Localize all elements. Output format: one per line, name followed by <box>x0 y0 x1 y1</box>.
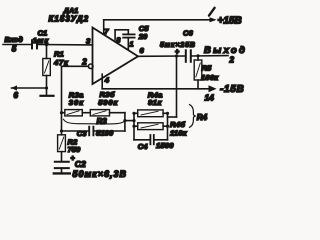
svg-text:20: 20 <box>138 32 148 41</box>
capacitor C5 20 (between pins 8 and 1) <box>115 24 149 50</box>
ground common bar under R1 <box>41 95 54 97</box>
svg-text:6: 6 <box>14 91 19 100</box>
resistor R3а 30к <box>62 91 85 116</box>
wire output pin 6 to C6 <box>138 55 185 57</box>
wire pin 7 to +15V rail <box>103 20 105 35</box>
inversion circle at pin 2 <box>88 64 93 69</box>
junction feedback node / R3 row <box>60 111 63 114</box>
svg-text:50мк×6,3В: 50мк×6,3В <box>73 169 128 179</box>
svg-text:2: 2 <box>81 58 87 67</box>
svg-text:Выход: Выход <box>204 45 247 56</box>
junction feedback node / C3 row <box>60 129 63 132</box>
wire R4 network right vertical <box>167 113 169 140</box>
svg-text:47к: 47к <box>53 58 69 67</box>
wire output node down to R4 network <box>168 56 177 117</box>
capacitor C4 1500 <box>134 135 174 151</box>
svg-text:8: 8 <box>116 35 120 44</box>
capacitor C2 50мк 6,3В polarized <box>55 156 127 180</box>
svg-text:R3: R3 <box>97 117 108 126</box>
svg-text:750: 750 <box>68 145 81 154</box>
junction R5 top <box>196 54 199 57</box>
svg-text:-15В: -15В <box>220 84 244 95</box>
resistor R2 750 <box>58 135 81 161</box>
junction R4 left middle <box>132 119 135 122</box>
junction R3 corner / tap to R4 <box>123 119 126 122</box>
svg-text:Вход: Вход <box>5 35 24 44</box>
svg-text:С6: С6 <box>183 29 193 38</box>
node Выход output terminal 2 <box>204 45 247 65</box>
wire C6 to output terminal <box>191 55 228 57</box>
svg-text:С4: С4 <box>138 142 148 151</box>
svg-text:R5: R5 <box>202 64 212 73</box>
svg-text:R4: R4 <box>197 113 208 122</box>
svg-text:6: 6 <box>140 46 145 55</box>
resistor R3б 590к <box>90 90 118 116</box>
svg-text:1500: 1500 <box>156 141 174 150</box>
capacitor C6 5мк 25В polarized <box>160 29 196 62</box>
resistor R4б 110к <box>134 120 188 137</box>
svg-text:С3: С3 <box>77 129 87 138</box>
resistor R5 100к <box>194 56 219 89</box>
junction R4 left top <box>132 112 135 115</box>
resistor R1 47к <box>43 45 69 95</box>
svg-text:100к: 100к <box>201 73 219 82</box>
wire -15V rail <box>102 88 214 90</box>
ground common bar under C2 <box>54 172 70 174</box>
svg-text:5100: 5100 <box>96 129 114 138</box>
svg-text:590к: 590к <box>98 98 118 107</box>
wire C1 to pin 3 <box>37 44 93 46</box>
junction input node / R1 <box>45 43 48 46</box>
wire pin 4 to -15V rail <box>101 74 103 89</box>
brace grouping R4 <box>190 105 208 128</box>
svg-text:91к: 91к <box>148 98 162 107</box>
wire input terminal to C1 <box>3 44 31 46</box>
svg-text:4: 4 <box>104 76 110 85</box>
wire pin 2 to feedback node <box>62 65 89 67</box>
svg-text:30к: 30к <box>69 98 84 107</box>
junction output / R4 branch <box>175 54 178 57</box>
svg-text:+15В: +15В <box>218 15 242 26</box>
brace grouping R3 <box>64 117 126 126</box>
arrowhead +15V terminal <box>209 8 217 23</box>
wire R3б to right corner <box>110 113 125 131</box>
junction R4 right bottom <box>166 125 169 128</box>
svg-text:С2: С2 <box>75 159 86 169</box>
node 6 common terminal arrow <box>11 85 47 100</box>
svg-text:+: + <box>175 49 179 56</box>
svg-text:5мк×25В: 5мк×25В <box>160 42 196 49</box>
wire R4 network left vertical <box>133 113 135 140</box>
svg-text:14: 14 <box>205 93 215 103</box>
wire +15V rail <box>104 19 214 21</box>
wire between R3а and R3б <box>82 112 90 114</box>
node Вход input terminal 5 <box>5 35 24 54</box>
svg-text:2: 2 <box>229 56 235 65</box>
resistor R4а 91к <box>134 90 168 116</box>
svg-text:110к: 110к <box>170 129 188 138</box>
arrowhead -15V terminal <box>209 85 217 92</box>
svg-text:К153УД2: К153УД2 <box>49 15 90 24</box>
junction R1 lead / terminal-6 wire <box>45 86 48 89</box>
junction R4 left bottom <box>132 125 135 128</box>
wire tap R3 node to R4 network <box>125 120 134 122</box>
svg-text:5: 5 <box>12 45 17 54</box>
op-amp U1 (DA1 К153УД2) triangle body <box>93 28 139 85</box>
capacitor C1 1мк <box>32 29 49 49</box>
svg-text:1: 1 <box>130 39 134 48</box>
svg-text:7: 7 <box>104 27 109 36</box>
wire feedback node vertical <box>61 66 63 135</box>
junction R4 right top <box>166 112 169 115</box>
capacitor C3 5100 <box>62 127 125 138</box>
